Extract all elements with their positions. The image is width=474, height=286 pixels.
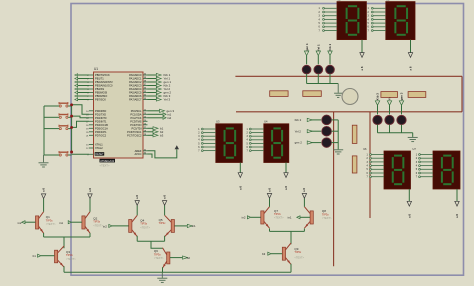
terminal Yel 1 — [316, 51, 320, 56]
terminal and wire at U1 pin PB3 — [75, 84, 89, 87]
terminal in1 at Q8 base — [288, 216, 310, 220]
terminal b1 at Q3 base — [33, 254, 55, 258]
transistor Q6 — [163, 248, 170, 268]
wire Yel 1 to LED — [317, 56, 319, 65]
label Q5 collector net — [162, 195, 166, 199]
wire LED D3 cathode — [329, 74, 331, 84]
label display common 5 — [407, 214, 411, 218]
svg-text:<TEXT>: <TEXT> — [100, 164, 110, 168]
svg-text:TIP3x: TIP3x — [66, 253, 73, 257]
7-segment display U5 — [386, 0, 415, 40]
svg-text:PD3/INT1: PD3/INT1 — [95, 119, 107, 123]
svg-text:Kib 1: Kib 1 — [328, 44, 332, 51]
label Kib 3 — [376, 93, 380, 100]
svg-text:PB3/AIN1/OC0: PB3/AIN1/OC0 — [95, 84, 113, 88]
svg-text:PB0/T0/XCK: PB0/T0/XCK — [95, 73, 110, 77]
wire LED D6 cathode — [332, 142, 339, 144]
wire Kib 3 to LED — [377, 105, 379, 114]
LED D3 — [326, 65, 335, 74]
terminal Kib 1 — [328, 51, 332, 56]
svg-text:a 6: a 6 — [238, 186, 242, 190]
wire Q3 emitter to rail — [63, 266, 65, 272]
junction dot 2 — [70, 115, 73, 118]
label Q3 TIP3x — [66, 250, 76, 261]
wire LED D9 cathode — [401, 125, 403, 133]
terminal Kib 1 from U1 PA pin — [148, 73, 171, 77]
wire Q8 emitter — [303, 229, 305, 232]
wire SW1 right pin to junction — [68, 105, 71, 107]
resistor R5 — [352, 125, 357, 143]
svg-text:PD5/OC1A: PD5/OC1A — [95, 126, 108, 130]
terminal b1 from U1 PC pin — [148, 127, 164, 131]
svg-text:PD1/TXD: PD1/TXD — [95, 112, 106, 116]
wire SW4 left pin to ground bus — [44, 154, 59, 156]
wire to Q9 collector — [290, 231, 292, 244]
terminal gen 3 from U1 PC0 — [148, 109, 175, 113]
terminal display common 3 — [238, 173, 242, 178]
resistor R3 — [381, 92, 398, 98]
terminal in1 at Q5 base — [175, 224, 197, 228]
label Q1 collector net — [41, 188, 45, 192]
svg-text:PA6/ADC6: PA6/ADC6 — [129, 94, 142, 98]
svg-text:<TEXT>: <TEXT> — [274, 216, 284, 220]
wire SW1 left pin to ground bus — [44, 105, 59, 107]
terminal Yel 1 from U1 PA pin — [148, 77, 171, 81]
terminal Q8 collector — [302, 194, 306, 199]
wire red net right vertical — [461, 76, 463, 112]
wire LED rail top cluster — [307, 83, 339, 85]
svg-text:U6: U6 — [363, 147, 367, 151]
round component (lamp) — [342, 89, 358, 105]
junction dot 4 — [70, 151, 73, 154]
terminal Yel 2 — [307, 130, 312, 133]
svg-text:TIP3x: TIP3x — [159, 221, 166, 225]
label Q7 collector net — [267, 188, 271, 192]
svg-text:TIP3x: TIP3x — [294, 250, 301, 254]
wire SW3 to U1 PD3 — [72, 121, 89, 127]
svg-text:a 6: a 6 — [284, 186, 288, 190]
LED D7 — [373, 115, 382, 124]
label display common 1 — [360, 66, 364, 70]
wire Yel 3 to LED — [389, 105, 391, 114]
svg-text:a 6: a 6 — [409, 66, 413, 70]
terminal in2 at Q1 base — [18, 221, 36, 225]
LED D9 — [397, 115, 406, 124]
svg-text:a 6: a 6 — [267, 188, 271, 192]
label Q4 collector net — [135, 195, 139, 199]
wire red net horizontal upper — [235, 75, 462, 77]
svg-text:a 6: a 6 — [302, 188, 306, 192]
terminal and wire at U1 pin PB2 — [75, 81, 89, 84]
wire Q1-Q2 emitters — [44, 236, 90, 238]
svg-text:gen 3: gen 3 — [400, 92, 404, 100]
resistor R2 — [303, 91, 322, 97]
junction dot 3 — [70, 126, 73, 129]
U1 pins XTAL1 XTAL2 RESET — [86, 143, 104, 157]
svg-text:a 6: a 6 — [407, 214, 411, 218]
LED D4 — [322, 115, 332, 125]
wire button junction column — [71, 105, 73, 153]
svg-text:in1: in1 — [59, 221, 63, 225]
terminal Q4 collector — [135, 201, 139, 206]
svg-text:PD0/RXD: PD0/RXD — [95, 109, 106, 113]
label Q7 TIP3x — [274, 209, 284, 220]
svg-text:TIP3x: TIP3x — [154, 252, 161, 256]
terminal Q1 collector — [41, 194, 45, 199]
svg-text:a 6: a 6 — [455, 214, 459, 218]
wire LED D5 cathode — [332, 130, 339, 132]
label Kib 1 — [328, 44, 332, 51]
svg-text:PA2/ADC2: PA2/ADC2 — [129, 80, 142, 84]
U1 pins 14-21 PD0-PD7 — [86, 109, 108, 137]
power terminal +V at U1 AVCC — [175, 145, 179, 149]
push button SW4 (reset) — [59, 151, 68, 156]
wire Q4 collector — [136, 205, 138, 215]
U4 segment pins 1-7 — [247, 128, 264, 152]
transistor Q1 — [36, 212, 44, 234]
svg-text:Yel 2: Yel 2 — [295, 129, 302, 133]
wire red net horizontal lower — [236, 111, 462, 113]
svg-text:XTAL2: XTAL2 — [95, 146, 103, 150]
svg-text:PA3/ADC3: PA3/ADC3 — [129, 84, 142, 88]
transistor Q2 — [82, 212, 90, 234]
wire SW2 left pin to ground bus — [44, 116, 59, 118]
svg-text:a 6: a 6 — [88, 188, 92, 192]
transistor Q4 — [129, 215, 138, 236]
svg-text:b3: b3 — [160, 134, 164, 138]
svg-text:<TEXT>: <TEXT> — [140, 225, 150, 229]
wire SW2 right pin to junction — [68, 116, 71, 118]
terminal Q5 collector — [162, 201, 166, 206]
svg-text:a 6: a 6 — [162, 195, 166, 199]
wire LED D4 cathode — [332, 119, 339, 121]
wire gen 2 to LED — [311, 142, 322, 144]
terminal and wire at U1 pin PB7 — [75, 98, 89, 101]
svg-text:PB5/MOSI: PB5/MOSI — [95, 91, 108, 95]
wire to Q6 collector — [151, 241, 163, 248]
terminal in1 from U1 PC1 — [148, 113, 172, 117]
LED D6 — [322, 138, 332, 148]
svg-text:PD4/OC1B: PD4/OC1B — [95, 123, 108, 127]
terminal gen 1 from U1 PA pin — [148, 80, 172, 84]
svg-text:b1: b1 — [33, 254, 37, 258]
label gen 2 — [295, 141, 303, 145]
U1 pins 1-8 PB0-PB7 — [87, 73, 113, 102]
terminal Q7 collector — [267, 194, 271, 199]
label Q4 TIP3x — [140, 219, 150, 230]
svg-text:<TEXT>: <TEXT> — [93, 223, 103, 227]
terminal Yel 2 from U1 PA pin — [148, 87, 171, 91]
svg-text:<TEXT>: <TEXT> — [322, 216, 332, 220]
svg-text:PC7/TOSC2: PC7/TOSC2 — [127, 133, 142, 137]
wire Q7 emitter — [269, 229, 271, 232]
label display common 6 — [455, 214, 459, 218]
wire Q2 collector — [89, 199, 91, 212]
wire Kib 1 to LED — [329, 56, 331, 65]
label display common 4 — [284, 186, 288, 190]
svg-text:PC2/TCK: PC2/TCK — [131, 116, 142, 120]
wire to Q3 collector — [63, 237, 65, 248]
svg-text:PB4/SS: PB4/SS — [95, 87, 104, 91]
wire Q5 collector — [164, 205, 166, 215]
svg-text:TIP3x: TIP3x — [93, 220, 100, 224]
U1 pins 32 AREF 30 AVCC — [134, 149, 147, 156]
ground (top LED cluster) — [334, 84, 342, 98]
svg-text:in2: in2 — [103, 224, 107, 228]
wire display common 5 — [408, 189, 410, 202]
wire display common 1 — [361, 40, 363, 53]
U1 pins 33-40 PA7-PA0 — [129, 73, 147, 102]
terminal display common 2 — [408, 53, 412, 58]
svg-text:U5: U5 — [386, 0, 390, 1]
svg-text:in2: in2 — [242, 216, 246, 220]
wire red net vertical B — [369, 112, 371, 218]
wire gen 3 to LED — [401, 105, 403, 114]
wire SW3 left pin to ground bus — [44, 128, 59, 130]
resistor R4 — [408, 92, 426, 98]
terminal and wire at U1 pin PB5 — [75, 91, 89, 94]
wire gen 1 to LED — [306, 56, 308, 65]
LED D5 — [322, 126, 332, 136]
terminal Kib 3 from U1 PA pin — [148, 94, 171, 98]
terminal in2 from U1 PC2 — [148, 116, 172, 120]
svg-text:gen 1: gen 1 — [305, 43, 309, 51]
wire Kib 2 to LED — [311, 119, 322, 121]
svg-text:U1: U1 — [94, 67, 98, 71]
U6 segment pins 1-7 — [367, 154, 385, 179]
push button SW3 — [59, 125, 68, 130]
transistor Q9 — [282, 243, 291, 264]
terminal in2 at Q4 base — [103, 224, 129, 228]
label gen 1 — [305, 43, 309, 51]
resistor R1 — [270, 91, 288, 97]
7-segment display U3 — [216, 120, 243, 163]
wire Q1 collector — [43, 199, 45, 212]
svg-text:TIP3x: TIP3x — [322, 212, 329, 216]
wire LED rail right cluster — [378, 133, 413, 137]
svg-text:XTAL1: XTAL1 — [95, 143, 103, 147]
svg-text:gen 2: gen 2 — [295, 141, 303, 145]
transistor Q3 — [55, 246, 65, 267]
junction dot 1 — [70, 103, 73, 106]
U3 segment pins 1-7 — [198, 128, 216, 152]
svg-text:Kib 2: Kib 2 — [295, 118, 302, 122]
microcontroller U1 (ATMEGA32) body — [94, 67, 144, 168]
LED D1 — [302, 65, 311, 74]
label Q6 TIP3x — [154, 249, 164, 260]
svg-text:<TEXT>: <TEXT> — [294, 256, 304, 260]
terminal b3 at Q9 base — [262, 252, 282, 256]
7-segment display U6 — [363, 147, 410, 189]
svg-text:PC6/TOSC1: PC6/TOSC1 — [127, 130, 142, 134]
svg-text:PB2/AIN0/INT2: PB2/AIN0/INT2 — [95, 80, 113, 84]
wire SW2 to U1 PD2 — [72, 116, 89, 118]
wire SW4 to U1 RESET — [68, 153, 89, 156]
svg-text:<TEXT>: <TEXT> — [154, 256, 164, 260]
terminal in1 at Q2 base — [59, 221, 82, 225]
terminal display common 4 — [284, 173, 288, 178]
label Q1 TIP3x — [46, 215, 56, 226]
wire Q6 emitter to rail — [162, 267, 164, 272]
ground bus wire for buttons — [43, 106, 45, 155]
wire Q7 collector — [269, 198, 271, 207]
terminal in2 at Q7 base — [242, 216, 261, 220]
terminal b2 from U1 PC pin — [148, 130, 164, 134]
transistor Q5 — [165, 215, 175, 236]
terminal Yel 3 from U1 PA pin — [148, 98, 171, 102]
terminal gen 3 — [399, 101, 403, 105]
wire Q5 emitter — [164, 236, 166, 242]
wire display common 6 — [456, 189, 458, 202]
wire display common 4 — [285, 163, 287, 173]
wire red net vertical A — [333, 112, 335, 266]
svg-text:PD7/OC2: PD7/OC2 — [95, 133, 107, 137]
U1 pins 22-29 PC0-PC7 — [127, 109, 147, 137]
svg-text:b3: b3 — [262, 252, 266, 256]
svg-text:ATMEGA32: ATMEGA32 — [100, 159, 115, 163]
svg-text:TIP3x: TIP3x — [140, 222, 147, 226]
label Q2 TIP3x — [93, 217, 103, 228]
label display common 2 — [409, 66, 413, 70]
svg-text:in2: in2 — [167, 116, 171, 120]
ground (bottom rail) — [157, 272, 167, 282]
7-segment display U4 — [264, 120, 289, 163]
label Yel 2 — [295, 129, 302, 133]
wire SW1 to U1 PD1 — [72, 105, 89, 115]
svg-text:U3: U3 — [216, 120, 220, 124]
svg-text:PA4/ADC4: PA4/ADC4 — [129, 87, 142, 91]
terminal b3 from U1 PC pin — [148, 134, 164, 138]
terminal gen 2 — [307, 141, 312, 144]
terminal display common 1 — [360, 53, 364, 58]
7-segment display U2 — [337, 0, 366, 40]
svg-text:AVCC: AVCC — [134, 152, 141, 156]
terminal and wire at U1 pin PB6 — [75, 95, 89, 98]
svg-text:b2: b2 — [187, 256, 191, 260]
label display common 3 — [238, 186, 242, 190]
LED D8 — [385, 115, 394, 124]
wire LED D2 cathode — [317, 74, 319, 84]
U2 segment pins 1-7 — [319, 7, 338, 32]
label Q2 collector net — [88, 188, 92, 192]
svg-text:<TEXT>: <TEXT> — [46, 222, 56, 226]
svg-text:PB6/MISO: PB6/MISO — [95, 94, 107, 98]
terminal gen 2 from U1 PA pin — [148, 91, 172, 95]
wire Q2 emitter — [89, 233, 91, 237]
svg-text:in1: in1 — [192, 224, 196, 228]
push button SW2 — [59, 113, 68, 118]
terminal and wire at U1 pin PB0 — [75, 74, 89, 77]
label Q8 TIP3x — [322, 209, 332, 220]
svg-text:U2: U2 — [337, 0, 341, 1]
wire AREF AVCC to power — [148, 149, 177, 158]
svg-text:PC4/TDO: PC4/TDO — [130, 123, 141, 127]
label Kib 2 — [295, 118, 302, 122]
svg-text:TIP3x: TIP3x — [46, 218, 53, 222]
svg-text:PD6/ICP1: PD6/ICP1 — [95, 130, 107, 134]
svg-text:Yel 1: Yel 1 — [317, 44, 321, 51]
wire Q7-Q8 emitters — [270, 230, 305, 232]
svg-text:PC0/SCL: PC0/SCL — [131, 109, 142, 113]
terminal Kib 2 from U1 PA pin — [148, 84, 171, 88]
terminal Kib 2 — [307, 118, 312, 121]
push button SW1 — [59, 102, 68, 107]
svg-text:U7: U7 — [413, 147, 417, 151]
ground (button bus) — [39, 155, 49, 167]
svg-text:PC1/SDA: PC1/SDA — [130, 112, 141, 116]
terminal and wire at U1 pin PB4 — [75, 88, 89, 91]
svg-text:PB7/SCK: PB7/SCK — [95, 98, 106, 102]
terminal Q2 collector — [88, 194, 92, 199]
svg-text:U4: U4 — [264, 120, 268, 124]
terminal Yel 3 — [387, 101, 391, 105]
svg-text:Kib 3: Kib 3 — [376, 93, 380, 100]
resistor R6 — [352, 156, 357, 173]
svg-text:TIP3x: TIP3x — [274, 212, 281, 216]
terminal b2 at Q6 base — [170, 256, 190, 260]
terminal Kib 3 — [375, 101, 379, 105]
svg-text:PA1/ADC1: PA1/ADC1 — [129, 77, 142, 81]
svg-text:in2: in2 — [18, 221, 22, 225]
wire display common 2 — [410, 40, 412, 53]
svg-text:PA0/ADC0: PA0/ADC0 — [129, 73, 142, 77]
label Yel 1 — [317, 44, 321, 51]
wire Q9 emitter to rail — [290, 264, 292, 273]
7-segment display U7 — [413, 147, 461, 189]
wire LED D1 cathode — [306, 74, 308, 84]
svg-text:PC5/TDI: PC5/TDI — [132, 126, 142, 130]
wire SW3 right pin to junction — [68, 128, 71, 130]
svg-text:PB1/T1: PB1/T1 — [95, 77, 104, 81]
label Yel 3 — [388, 93, 392, 100]
wire Q1 emitter — [43, 233, 45, 237]
svg-text:PA7/ADC7: PA7/ADC7 — [129, 98, 142, 102]
terminal gen 1 — [304, 51, 308, 56]
ground (middle LED cluster) — [333, 150, 343, 154]
wire Q4 emitter — [136, 236, 138, 242]
terminal display common 5 — [407, 201, 411, 206]
svg-text:RESET: RESET — [95, 153, 104, 156]
wire Yel 2 to LED — [311, 130, 322, 132]
wire LED D8 cathode — [389, 125, 391, 133]
U7 segment pins 1-7 — [416, 154, 433, 179]
label Q5 TIP3x — [159, 218, 166, 225]
svg-text:Yel 3: Yel 3 — [164, 98, 171, 102]
terminal display common 6 — [455, 201, 459, 206]
ground (right LED cluster) — [408, 137, 418, 141]
svg-text:PC3/TMS: PC3/TMS — [130, 119, 142, 123]
svg-text:a 6: a 6 — [41, 188, 45, 192]
wire LED rail middle cluster — [337, 120, 339, 149]
LED D2 — [314, 65, 323, 74]
svg-text:PD2/INT0: PD2/INT0 — [95, 116, 107, 120]
terminal and wire at U1 pin PB1 — [75, 77, 89, 80]
wire bottom emitter rail — [64, 271, 291, 273]
wire display common 3 — [239, 163, 241, 173]
svg-text:in1: in1 — [288, 216, 292, 220]
label Q9 TIP3x — [294, 247, 304, 260]
svg-text:a 6: a 6 — [360, 66, 364, 70]
U5 segment pins 1-7 — [368, 7, 386, 32]
label gen 3 — [400, 92, 404, 100]
svg-text:a 6: a 6 — [135, 195, 139, 199]
wire LED D7 cathode — [377, 125, 379, 133]
transistor Q8 — [304, 207, 313, 229]
svg-text:<TEXT>: <TEXT> — [66, 257, 76, 261]
label Q8 collector net — [302, 188, 306, 192]
wire Q4-Q5 emitters — [137, 240, 164, 242]
svg-text:PA5/ADC5: PA5/ADC5 — [129, 91, 142, 95]
